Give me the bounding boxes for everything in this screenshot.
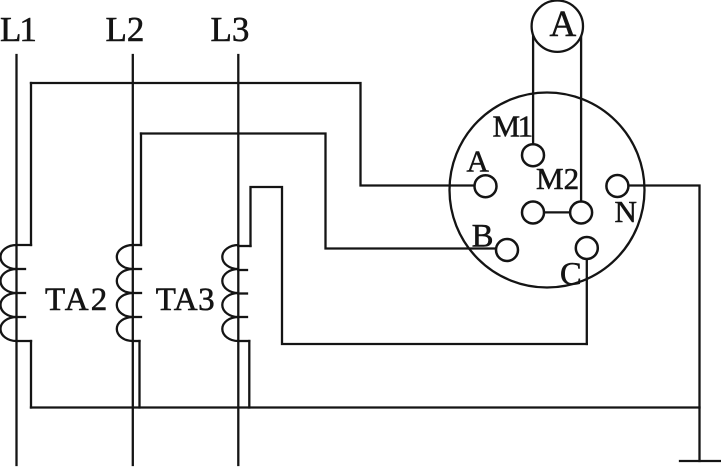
wire: bus from L2 CT to switch terminal B	[141, 134, 507, 249]
wire: N terminal to right edge riser	[617, 186, 699, 462]
terminal B	[496, 239, 518, 261]
wire: L2 secondary bottom drop	[138, 341, 140, 408]
wire: ammeter left lead to M1	[532, 26, 534, 155]
CT winding TA3 on L3 (arcs)	[222, 245, 238, 341]
phase line L2	[132, 55, 134, 465]
svg-text:L1: L1	[0, 10, 35, 49]
svg-text:N: N	[615, 194, 637, 229]
ground bar at bottom right	[680, 460, 721, 462]
CT TA2 mid tap tick 1	[133, 268, 141, 270]
wire: L1 secondary top riser	[30, 83, 32, 245]
wire: top bus from L1 CT to switch terminal A	[31, 83, 486, 186]
CT winding on L1 (arcs)	[1, 245, 17, 341]
svg-text:L3: L3	[211, 10, 250, 49]
wire: bottom common bus	[31, 406, 700, 408]
terminal A	[475, 175, 497, 197]
CT TA3 bottom tap tick	[238, 340, 249, 342]
svg-text:TA3: TA3	[156, 282, 215, 318]
wire: L3 secondary bottom drop	[248, 341, 250, 408]
svg-text:A: A	[550, 4, 577, 45]
switch body circle	[450, 93, 645, 288]
CT TA3 mid tap tick 3	[238, 316, 247, 318]
svg-text:L2: L2	[106, 10, 145, 49]
terminal M2 right	[570, 202, 592, 224]
wire: L1 secondary bottom drop	[30, 341, 32, 408]
wire: L2 secondary top riser	[140, 134, 142, 246]
CT TA3 mid tap tick 1	[238, 269, 247, 271]
CT winding TA2 on L2 (arcs)	[117, 245, 133, 341]
svg-text:M2: M2	[536, 161, 579, 196]
CT on L1 mid tap tick 3	[17, 316, 26, 318]
svg-text:C: C	[560, 257, 582, 293]
svg-text:TA2: TA2	[45, 282, 109, 318]
CT TA2 bottom tap tick	[133, 340, 140, 342]
wire: C terminal drop to lower jog	[586, 248, 588, 344]
ammeter body circle	[532, 1, 583, 52]
svg-text:B: B	[472, 218, 494, 254]
svg-text:M1: M1	[493, 108, 532, 143]
wire: L3 secondary top riser and jog to switch terminal C	[251, 187, 587, 344]
terminal M2 left	[522, 202, 544, 224]
phase line L1	[15, 55, 17, 465]
CT TA2 top tap tick	[133, 244, 141, 246]
terminal M1	[522, 144, 544, 166]
terminal N	[606, 175, 628, 197]
CT TA3 top tap tick	[238, 245, 250, 247]
CT TA2 mid tap tick 3	[133, 316, 141, 318]
phase line L3	[237, 55, 239, 465]
CT on L1 mid tap tick 2	[17, 292, 26, 294]
CT on L1 top tap tick	[17, 244, 32, 246]
svg-text:A: A	[467, 143, 490, 178]
wire: link between M2 pair	[533, 211, 581, 213]
CT on L1 mid tap tick 1	[17, 268, 26, 270]
terminal C	[576, 237, 598, 259]
wire: ammeter right lead to M2	[580, 26, 582, 212]
CT TA2 mid tap tick 2	[133, 292, 141, 294]
CT on L1 bottom tap tick	[17, 340, 32, 342]
CT TA3 mid tap tick 2	[238, 292, 247, 294]
